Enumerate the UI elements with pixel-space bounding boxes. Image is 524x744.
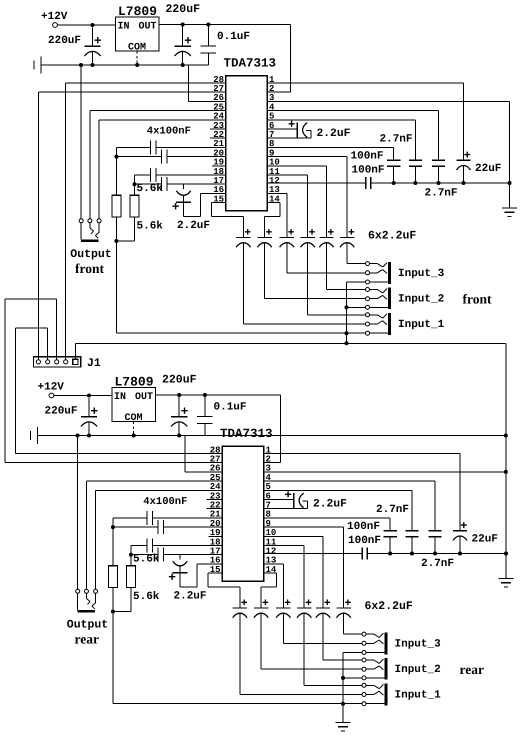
svg-text:Output: Output [67, 619, 108, 632]
front channel section [34, 3, 517, 335]
wire cap5 to Input_2 tip (rear) [323, 613, 362, 660]
capacitor 2.7nF at pin5 (rear) [264, 490, 419, 553]
label rear inputs [460, 662, 484, 677]
svg-text:0.1uF: 0.1uF [217, 31, 250, 43]
svg-text:IN: IN [118, 22, 130, 33]
capacitor 2.2uF at pin16 (front) [172, 184, 225, 232]
capacitor 2.2uF at pin16 (rear) [169, 555, 222, 603]
svg-text:Input_1: Input_1 [395, 690, 442, 702]
ground rail (front) [41, 63, 226, 101]
capacitors 6x2.2uF (front) [236, 166, 416, 247]
connector Input_2 (front) [366, 288, 445, 310]
regulator L7809 (rear) [112, 375, 156, 425]
svg-text:+12V: +12V [38, 382, 65, 394]
wire ground bus to output sleeve (rear) [77, 436, 79, 590]
wire R-bus to Input_1 sleeve (rear) [113, 703, 362, 705]
svg-text:4x100nF: 4x100nF [147, 126, 191, 138]
capacitor 100nF series pin9-12 (front) [267, 164, 385, 189]
svg-text:100nF: 100nF [348, 535, 381, 547]
wire pin3 to ground (rear) [264, 472, 507, 554]
svg-text:220uF: 220uF [162, 374, 197, 387]
svg-text:5.6k: 5.6k [133, 591, 160, 603]
wire pin9 to cap6 (rear) [264, 527, 344, 608]
wire pin11 to cap4 (rear) [264, 545, 305, 547]
connector Input_3 (rear) [362, 632, 441, 654]
capacitor 220uF input electrolytic (rear) [45, 398, 98, 436]
pin stubs 23 22 19 (front) [210, 129, 226, 166]
svg-text:rear: rear [460, 662, 484, 677]
wire +9V rail from OUT to pin2 (rear) [156, 393, 281, 463]
svg-text:2.2uF: 2.2uF [177, 220, 210, 232]
capacitor 220uF output electrolytic (front) [166, 3, 201, 65]
wire cap3 to Input_3 mid (rear) [283, 613, 362, 643]
wire cap2 to Input_2 mid (rear) [261, 613, 362, 669]
pin numbers right 1-14 (rear) [266, 445, 277, 575]
capacitor 100nF series pin9-12 (rear) [264, 535, 382, 560]
wire cap6 to Input_3 tip (rear) [344, 613, 362, 634]
capacitors 6x2.2uF (rear) [233, 536, 413, 617]
label front output [75, 261, 105, 276]
ground rail right (front) [371, 181, 512, 185]
wire pin10 to cap5 (rear) [264, 535, 324, 537]
wire ground bus to output sleeve (front) [80, 65, 82, 219]
wire rear sleeve bus to ground [342, 704, 344, 723]
wire resistor bottoms junction (rear) [111, 588, 131, 704]
wire cap4 to Input_1 tip (front) [308, 243, 366, 315]
capacitor 100nF at pin8 (front) [267, 147, 400, 183]
capacitor 22uF at pin1 (rear) [264, 454, 498, 554]
capacitors 4x100nF (front) [114, 126, 225, 196]
wire pin10 to cap5 (front) [267, 165, 327, 167]
connector Output (front) [70, 219, 111, 261]
svg-text:Input_2: Input_2 [395, 664, 441, 676]
wire pin14 to cap2 (rear) [261, 573, 277, 587]
wire R-bus to Input_1 sleeve (front) [116, 332, 365, 334]
svg-text:6x2.2uF: 6x2.2uF [368, 230, 416, 243]
capacitor 2.2uF at pin6-7 (front) [267, 121, 351, 140]
svg-text:2.7nF: 2.7nF [376, 504, 409, 516]
wire pin13 to cap3 (front) [267, 192, 287, 194]
wire pin25 to output (rear) [87, 481, 223, 589]
svg-text:+12V: +12V [41, 11, 68, 23]
capacitor 220uF output electrolytic (rear) [162, 374, 197, 436]
svg-text:2.2uF: 2.2uF [174, 591, 207, 603]
capacitors 4x100nF (rear) [111, 496, 222, 566]
resistor 5.6k R2 (rear) [126, 566, 159, 603]
capacitor 100nF at pin8 (rear) [264, 518, 397, 554]
svg-text:4x100nF: 4x100nF [143, 496, 187, 508]
capacitor 2.7nF at pin4 (rear) [264, 481, 455, 570]
svg-text:Input_3: Input_3 [395, 639, 442, 651]
ground symbol right (front) [502, 183, 517, 216]
svg-text:IN: IN [114, 392, 126, 403]
connector Input_1 (front) [366, 313, 445, 335]
wire pin14 to cap2 (front) [265, 203, 281, 217]
wire sleeve bus inputs (rear) [341, 653, 362, 706]
svg-text:2.7nF: 2.7nF [425, 187, 458, 199]
wire front sleeve bus to rail [346, 333, 348, 343]
svg-text:OUT: OUT [135, 392, 153, 403]
svg-text:Input_3: Input_3 [398, 268, 445, 280]
capacitor 0.1uF (rear) [197, 395, 246, 436]
svg-text:OUT: OUT [139, 22, 157, 33]
ground rail right (rear) [367, 552, 508, 556]
ground symbol right (rear) [499, 554, 514, 587]
capacitor 0.1uF (front) [201, 25, 250, 66]
svg-text:100nF: 100nF [352, 164, 385, 176]
wire pin24 to output (rear) [96, 490, 222, 589]
svg-text:220uF: 220uF [166, 3, 201, 16]
wire cap3 to Input_3 mid (front) [287, 243, 366, 273]
wire pin13 to cap3 (rear) [264, 563, 284, 565]
svg-text:2.7nF: 2.7nF [380, 134, 413, 146]
pin numbers left 28-15 (rear) [210, 445, 221, 575]
wire regulator COM to ground (dashed) (front) [136, 51, 138, 65]
ground symbol bottom center [336, 723, 351, 731]
wire +12V to regulator IN (rear) [54, 394, 112, 398]
wire cap1 to Input_1 mid (rear) [240, 613, 362, 694]
wire pin15 to cap1 (front) [211, 203, 243, 217]
wire pin24 to output (front) [99, 120, 225, 219]
svg-text:0.1uF: 0.1uF [214, 402, 247, 414]
wire J1 pin2 to rear pin28 [16, 328, 223, 454]
resistor 5.6k R1 (front) [112, 183, 163, 217]
label front inputs [463, 292, 493, 307]
svg-text:5.6k: 5.6k [133, 553, 160, 565]
connector Input_2 (rear) [362, 658, 441, 680]
svg-text:TDA7313: TDA7313 [224, 57, 277, 71]
svg-text:Input_2: Input_2 [398, 293, 444, 305]
regulator L7809 (front) [116, 4, 160, 54]
capacitor 22uF at pin1 (front) [267, 83, 501, 183]
wire cap2 to Input_2 mid (front) [265, 243, 366, 299]
wire cap6 to Input_3 tip (front) [347, 243, 365, 264]
op-amp/IC TDA7313 (front) [224, 57, 277, 211]
wire rear ground rail extension to right vertical [205, 434, 508, 474]
svg-text:J1: J1 [87, 357, 101, 370]
wire front ground to rear ground [505, 343, 507, 553]
op-amp/IC TDA7313 (rear) [220, 427, 273, 581]
svg-text:Input_1: Input_1 [398, 319, 445, 331]
node +12V (front) [41, 11, 68, 27]
wire pin9 to cap6 (front) [267, 157, 347, 238]
wire pin25 to output (front) [90, 111, 226, 219]
ground rail (rear) [38, 434, 223, 472]
svg-text:6x2.2uF: 6x2.2uF [365, 600, 413, 613]
capacitor 2.7nF at pin4 (front) [267, 111, 458, 200]
wire pin11 to cap4 (front) [267, 174, 308, 176]
svg-text:TDA7313: TDA7313 [220, 427, 273, 441]
capacitor 2.7nF at pin5 (front) [267, 120, 422, 183]
wire cap5 to Input_2 tip (front) [327, 243, 366, 290]
node +12V (rear) [38, 382, 65, 398]
wire +12V to regulator IN (front) [58, 23, 116, 27]
wire resistor bottoms junction (front) [114, 217, 134, 333]
svg-text:22uF: 22uF [475, 163, 501, 175]
svg-text:2.2uF: 2.2uF [317, 128, 351, 140]
wire J1 pin3 to rear pin27 [5, 299, 222, 463]
svg-text:100nF: 100nF [347, 521, 380, 533]
capacitor 220uF input electrolytic (front) [48, 28, 101, 66]
pin numbers left 28-15 (front) [213, 75, 224, 205]
svg-text:rear: rear [75, 631, 99, 646]
wire +9V rail from OUT to pin2 (front) [159, 23, 291, 93]
svg-text:2.2uF: 2.2uF [313, 499, 347, 511]
resistor 5.6k R2 (front) [130, 195, 163, 232]
wire regulator COM to ground (dashed) (rear) [133, 422, 135, 436]
wire cap1 to Input_1 mid (front) [243, 243, 365, 324]
svg-text:5.6k: 5.6k [137, 183, 164, 195]
wire pin3 to ground (front) [267, 101, 510, 183]
svg-text:front: front [75, 261, 105, 276]
svg-text:2.7nF: 2.7nF [421, 558, 454, 570]
wire pin28 to J1 pin4 [66, 83, 226, 360]
pin numbers right 1-14 (front) [269, 75, 280, 205]
wire J1 pin5 ground rail [75, 341, 506, 359]
svg-text:220uF: 220uF [48, 35, 81, 47]
svg-text:5.6k: 5.6k [137, 220, 164, 232]
connector Input_1 (rear) [362, 683, 441, 705]
svg-text:220uF: 220uF [45, 406, 78, 418]
ground symbol left (front) [34, 57, 41, 74]
wire cap4 to Input_1 tip (rear) [304, 613, 362, 685]
connector J1 [34, 357, 101, 370]
resistor 5.6k R1 (rear) [108, 553, 159, 587]
wire sleeve bus inputs (front) [345, 282, 366, 335]
svg-text:Output: Output [70, 248, 111, 261]
connector Output (rear) [67, 589, 108, 631]
svg-text:100nF: 100nF [351, 151, 384, 163]
pin stubs 23 22 19 (rear) [207, 500, 223, 537]
label rear output [75, 631, 99, 646]
svg-text:front: front [463, 292, 493, 307]
wire pin15 to cap1 (rear) [208, 573, 240, 587]
ground symbol left (rear) [31, 427, 38, 444]
rear channel section [31, 374, 514, 706]
wire pin27 to J1 pin1 [38, 92, 225, 359]
capacitor 2.2uF at pin6-7 (rear) [264, 491, 348, 510]
svg-text:22uF: 22uF [472, 533, 498, 545]
connector Input_3 (front) [366, 262, 445, 284]
